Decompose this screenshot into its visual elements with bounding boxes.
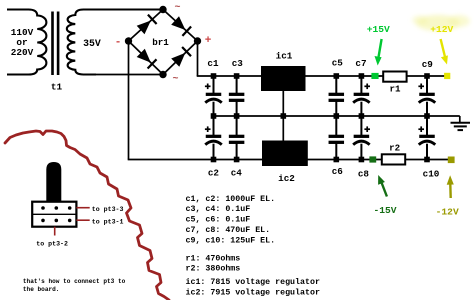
capacitor C10 (125uF) [418,116,435,160]
leader line to pt3-3 [76,207,89,209]
svg-text:ic2: 7915 voltage regulator: ic2: 7915 voltage regulator [186,287,320,297]
label c5 [332,58,344,69]
node: -15V tap (dark green square) [369,156,376,162]
label c10 [423,169,440,180]
junction dots on negative rail [211,157,430,163]
label +15V [367,24,390,35]
wire: positive rail [197,75,447,77]
label c2 [208,168,220,179]
svg-text:+12V: +12V [430,24,453,35]
svg-text:c10: c10 [423,169,440,180]
capacitor C6 (0.1uF) [329,116,345,160]
svg-text:c9: c9 [422,59,434,70]
svg-text:the board.: the board. [23,286,60,293]
label ic2 [278,173,295,184]
label 110V or 220V [11,27,34,58]
arrow to -15V tap [378,175,387,197]
transformer T1 primary winding [7,10,46,75]
label c7 [355,58,366,69]
capacitor C5 (0.1uF) [329,76,345,116]
svg-text:c7: c7 [355,58,366,69]
svg-text:c5, c6: 0.1uF: c5, c6: 0.1uF [186,216,251,225]
label ~ (AC bottom) [172,74,178,85]
svg-text:r2: r2 [389,143,400,154]
svg-text:c6: c6 [332,166,344,177]
wire: negative rail [128,159,451,161]
capacitor C7 (470uF) [353,76,370,116]
arrow to +15V tap [375,39,382,66]
svg-text:ic2: ic2 [278,173,295,184]
node: -12V tap (dark yellow square) [448,157,455,164]
svg-text:ic1: 7815 voltage regulator: ic1: 7815 voltage regulator [186,277,320,287]
label c1 [207,58,219,69]
capacitor C8 (470uF) [353,116,370,160]
label t1 [51,82,63,93]
svg-text:-: - [115,37,122,49]
svg-text:to pt3-1: to pt3-1 [92,218,124,225]
svg-text:c1: c1 [207,58,219,69]
svg-text:220V: 220V [11,47,34,58]
leader line to pt3-1 [76,219,89,221]
transformer T1 core [51,12,59,76]
label ic1 [276,51,293,62]
voltage regulator IC1 (7815) [261,66,306,91]
svg-text:-12V: -12V [436,207,459,218]
svg-text:c2: c2 [208,168,220,179]
svg-text:c9, c10: 125uF EL.: c9, c10: 125uF EL. [186,236,276,245]
annotation: thats how to connect pt3 [23,278,126,293]
label to pt3-2 [36,240,68,247]
label c6 [332,166,344,177]
bridge BR1 diode (bottom node to right node) [171,47,191,67]
bridge BR1 node dots [125,6,201,78]
label r2 [389,143,400,154]
label r1 [389,84,401,95]
connector PT3 pin (black plug) [46,162,61,202]
svg-text:br1: br1 [152,37,169,48]
wire: bridge minus down to negative rail [128,41,130,160]
transformer T1 secondary winding [67,10,163,75]
capacitor C3 (0.1uF) [229,76,245,116]
wire: secondary bottom to bridge AC bottom [94,74,163,76]
svg-text:+15V: +15V [367,24,390,35]
svg-text:r1: 470ohms: r1: 470ohms [186,253,241,263]
annotation squiggle (hand-drawn red line) [5,131,169,300]
bridge BR1 diode (left node to top node) [137,15,157,35]
wire: bridge plus down to positive rail [197,41,199,76]
capacitor C2 (1000uF) [205,116,222,160]
svg-text:to pt3-3: to pt3-3 [92,206,124,213]
svg-text:r1: r1 [389,84,401,95]
svg-text:35V: 35V [83,38,101,49]
svg-text:c4: c4 [231,168,243,179]
svg-text:that's how to connect pt3 to: that's how to connect pt3 to [23,278,126,285]
label -15V [373,205,396,216]
wire: IC1 ground lead [282,91,284,116]
resistor R2 [382,154,405,164]
label to pt3-3 [92,206,124,213]
capacitor C4 (0.1uF) [229,116,245,160]
svg-text:c5: c5 [332,58,344,69]
svg-text:to pt3-2: to pt3-2 [36,240,68,247]
label +12V [430,24,453,35]
svg-text:~: ~ [172,74,178,85]
svg-text:ic1: ic1 [276,51,293,62]
leader line to pt3-2 [54,227,56,236]
svg-text:~: ~ [174,3,180,14]
wire: IC2 ground lead [282,116,284,141]
label c8 [358,169,370,180]
label c3 [232,58,244,69]
capacitor C1 (1000uF) [205,76,222,116]
resistor R1 [383,72,406,82]
bridge rectifier BR1 diamond wires [129,10,198,75]
svg-text:c3: c3 [232,58,244,69]
label to pt3-1 [92,218,124,225]
wire: ground rail [213,115,460,117]
label c9 [422,59,434,70]
node: +12V tap (yellow square) [444,73,450,79]
junction dots on positive rail [211,73,430,79]
bridge BR1 diode (left node to bottom node) [137,49,157,69]
ground symbol [451,116,471,130]
label c4 [231,168,243,179]
label ~ (AC top) [174,3,180,14]
label -12V [436,207,459,218]
arrow to -12V tap [447,175,454,198]
bridge BR1 diode (top node to right node) [171,16,191,36]
capacitor C9 (125uF) [418,76,435,116]
voltage regulator IC2 (7915) [262,141,308,167]
svg-text:-15V: -15V [373,205,396,216]
connector PT3 pin dots [41,206,71,222]
label - (bridge minus) [115,37,122,49]
svg-text:+: + [205,35,212,47]
svg-text:r2: 380ohms: r2: 380ohms [186,264,241,274]
label 35V [83,38,101,49]
connector PT3 body [32,202,76,227]
label br1 [152,37,169,48]
svg-text:c1, c2: 1000uF EL.: c1, c2: 1000uF EL. [186,195,276,204]
svg-text:c8: c8 [358,169,370,180]
label + (bridge plus) [205,35,212,47]
svg-text:t1: t1 [51,82,63,93]
junction dots on ground rail [211,113,430,119]
svg-text:c3, c4: 0.1uF: c3, c4: 0.1uF [186,205,251,214]
value labels text block [186,195,320,297]
node: +15V tap (green square) [371,73,378,79]
arrow to +12V tap [441,39,448,65]
svg-text:c7, c8: 470uF EL.: c7, c8: 470uF EL. [186,226,271,235]
